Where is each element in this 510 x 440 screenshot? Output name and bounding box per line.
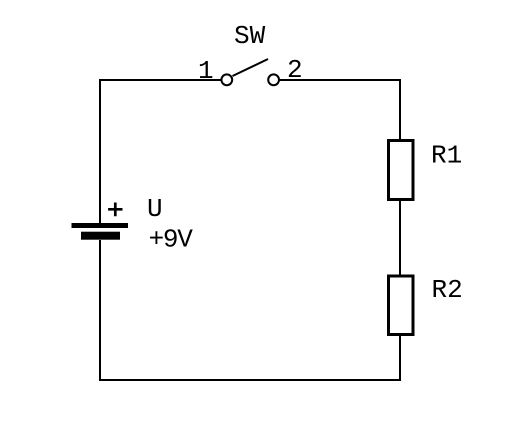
svg-text:1: 1 [198, 56, 214, 86]
svg-text:R1: R1 [431, 141, 462, 171]
svg-text:SW: SW [234, 21, 266, 51]
svg-text:U: U [147, 194, 163, 224]
svg-text:R2: R2 [432, 275, 463, 305]
svg-text:2: 2 [287, 55, 303, 85]
svg-text:+9V: +9V [149, 225, 194, 255]
